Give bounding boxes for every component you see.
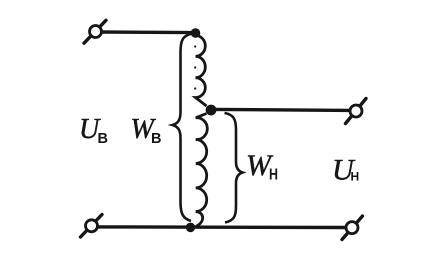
node bottom junction — [186, 223, 196, 233]
wire bottom horizontal — [97, 225, 346, 229]
svg-text:H: H — [269, 167, 278, 184]
brace right (W_n span) — [225, 113, 243, 223]
terminal T2 circle — [350, 105, 362, 117]
core dots — [194, 45, 196, 47]
terminal T3 circle — [86, 220, 98, 232]
terminal T3 slash (bottom-left) — [81, 215, 103, 238]
svg-text:H: H — [351, 170, 360, 184]
node top junction — [191, 28, 201, 38]
svg-text:B: B — [98, 131, 108, 147]
svg-text:B: B — [151, 131, 161, 147]
terminal T4 slash (bottom-right) — [342, 216, 363, 240]
brace left (W_v span) — [173, 34, 193, 222]
wire top horizontal — [101, 30, 194, 34]
winding W (coil with tap) — [196, 36, 208, 227]
terminal T4 circle — [346, 222, 358, 234]
wire middle horizontal — [214, 109, 350, 110]
terminal T1 slash (top-left) — [84, 20, 106, 43]
terminal T2 slash (mid-right) — [346, 99, 367, 124]
node tap junction — [206, 105, 217, 116]
terminal T1 circle — [90, 26, 102, 38]
